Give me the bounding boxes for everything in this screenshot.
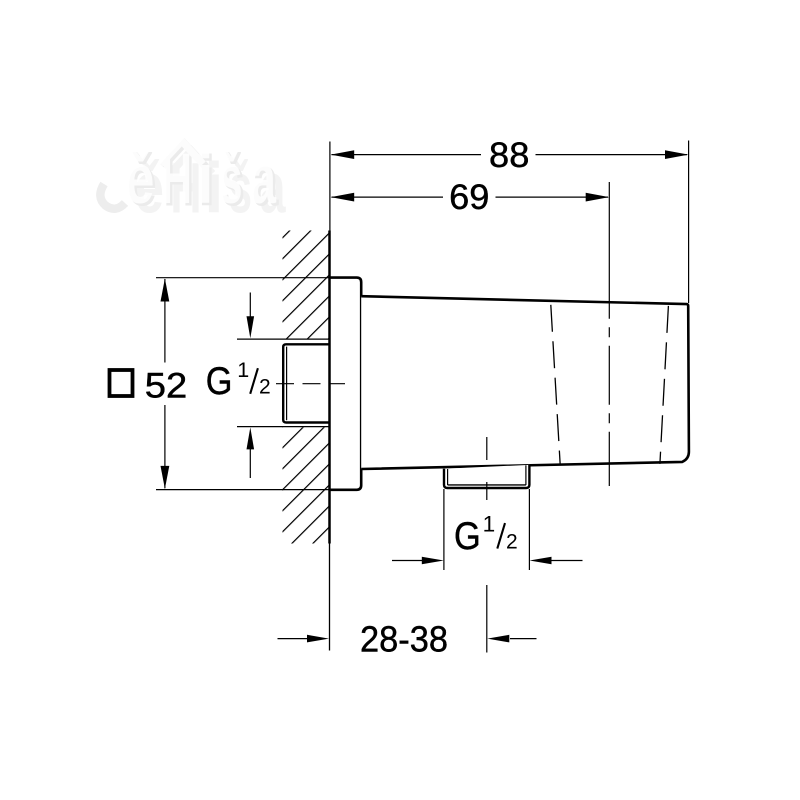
svg-text:2: 2 (259, 376, 271, 399)
svg-text:1: 1 (237, 358, 249, 382)
svg-text:i: i (195, 140, 215, 219)
svg-text:a: a (250, 140, 276, 219)
svg-text:1: 1 (483, 512, 496, 537)
svg-text:52: 52 (145, 366, 188, 405)
svg-text:š: š (219, 140, 243, 219)
svg-text:ě: ě (125, 140, 155, 219)
svg-text:2: 2 (506, 530, 518, 553)
svg-text:88: 88 (489, 136, 529, 175)
svg-text:G: G (206, 360, 233, 403)
svg-text:G: G (454, 515, 481, 558)
svg-text:69: 69 (449, 178, 489, 217)
svg-text:28-38: 28-38 (360, 618, 448, 659)
